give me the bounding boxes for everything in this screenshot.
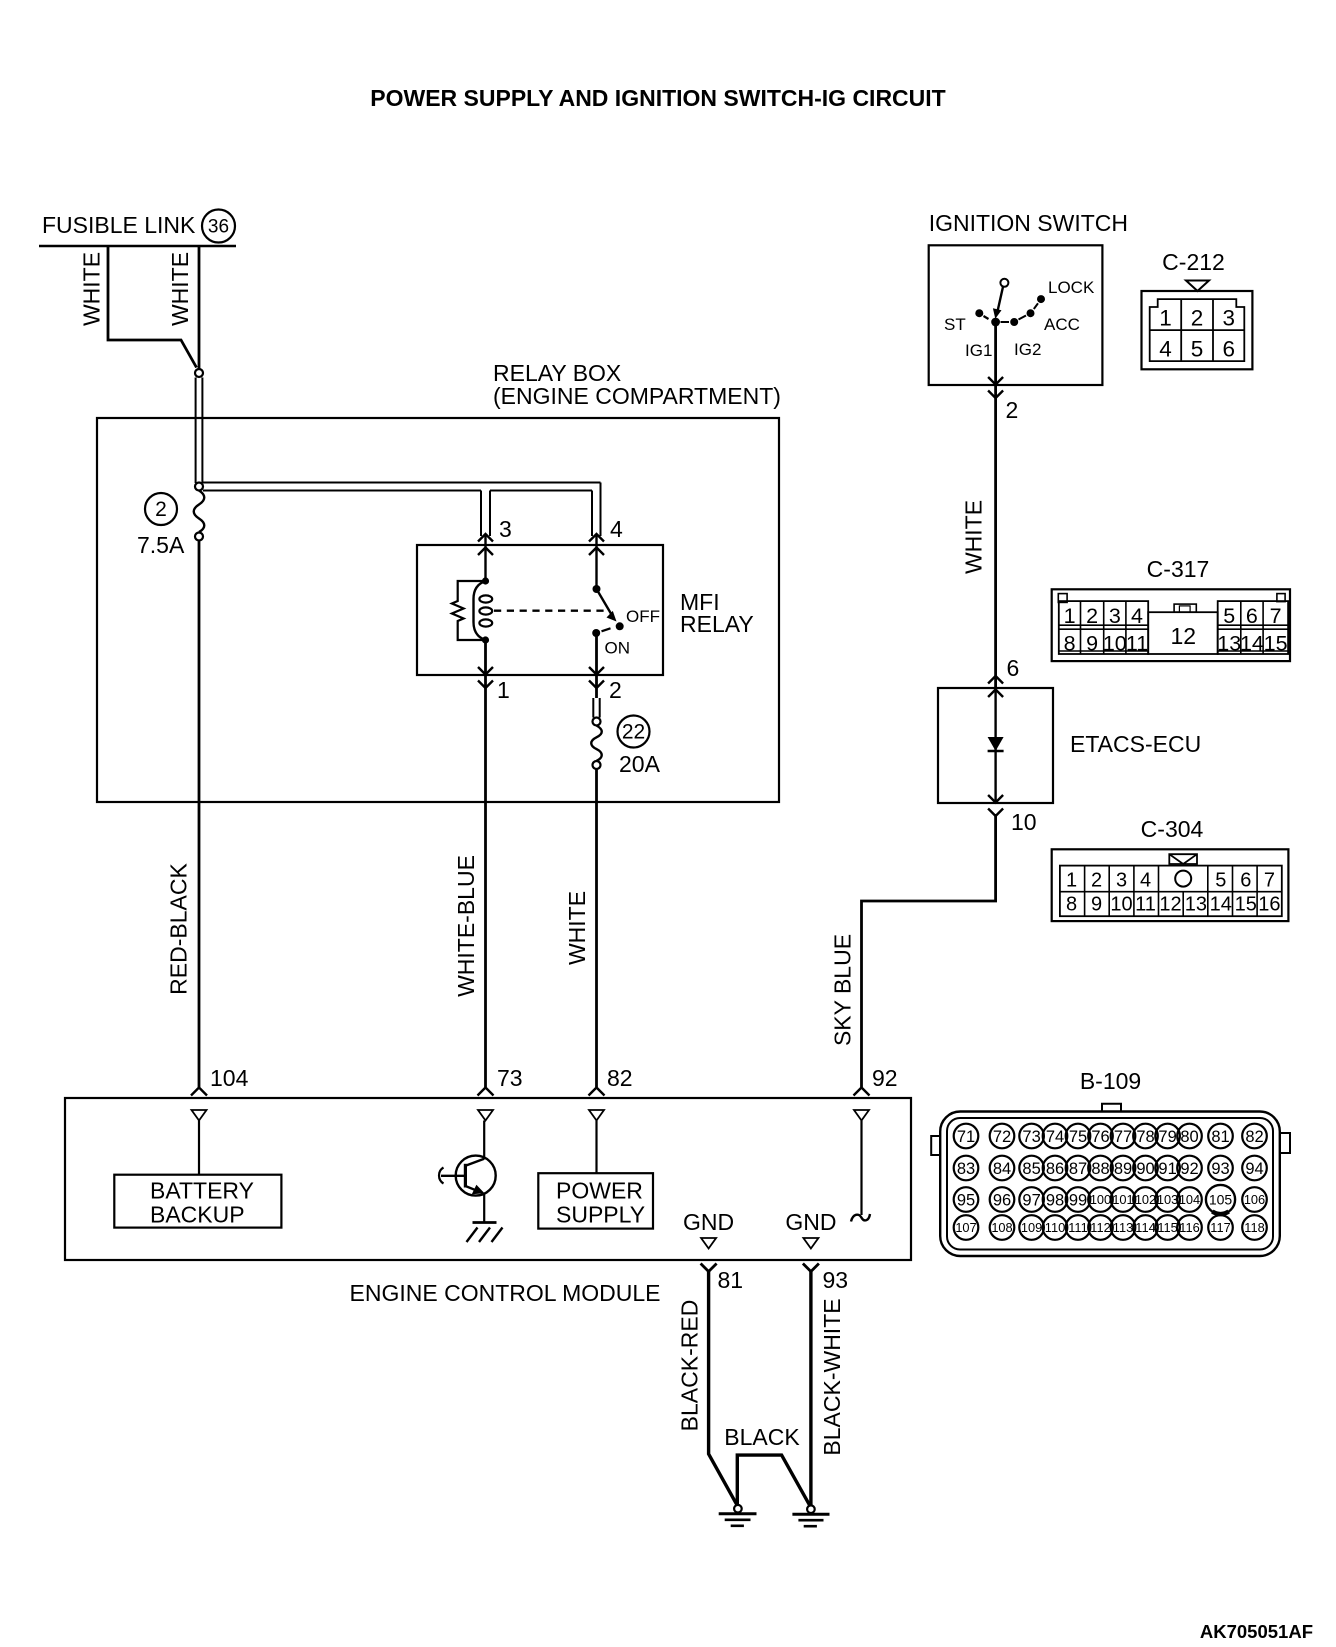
svg-text:4: 4 bbox=[1140, 870, 1151, 892]
svg-text:10: 10 bbox=[1103, 631, 1127, 655]
relay box (engine compartment) bbox=[97, 418, 779, 802]
B-109 pin 91 bbox=[1155, 1156, 1180, 1181]
svg-text:IG2: IG2 bbox=[1014, 340, 1041, 359]
ETACS pin 10 terminal arrows bbox=[988, 795, 1003, 816]
B-109 pin 80 bbox=[1177, 1124, 1202, 1149]
connector C-317 body bbox=[1052, 589, 1290, 661]
svg-text:8: 8 bbox=[1066, 893, 1077, 915]
common contact dot bbox=[991, 318, 1000, 327]
svg-text:WHITE-BLUE: WHITE-BLUE bbox=[453, 855, 479, 997]
B-109 pin 96 bbox=[990, 1187, 1015, 1212]
svg-text:C-304: C-304 bbox=[1141, 816, 1204, 842]
connector C-304 body bbox=[1052, 849, 1289, 921]
svg-text:C-317: C-317 bbox=[1147, 556, 1210, 582]
svg-text:114: 114 bbox=[1135, 1220, 1155, 1235]
svg-text:9: 9 bbox=[1086, 631, 1098, 655]
wire WHITE-BLUE (relay pin 1 to ECM pin 73) bbox=[484, 640, 487, 1087]
svg-text:BATTERY: BATTERY bbox=[150, 1178, 254, 1204]
svg-text:89: 89 bbox=[1114, 1160, 1132, 1178]
ECM pin 93 terminal bbox=[803, 1264, 819, 1272]
svg-text:10: 10 bbox=[1011, 809, 1037, 835]
B-109 pin 93 bbox=[1208, 1156, 1233, 1181]
transistor Q lead bbox=[483, 1121, 485, 1160]
relay resistor bbox=[452, 581, 486, 640]
svg-text:81: 81 bbox=[718, 1267, 744, 1293]
svg-text:4: 4 bbox=[610, 516, 623, 542]
B-109 pin 85 bbox=[1019, 1156, 1044, 1181]
svg-text:90: 90 bbox=[1136, 1160, 1154, 1178]
svg-text:36: 36 bbox=[208, 217, 229, 238]
svg-text:16: 16 bbox=[1258, 893, 1280, 915]
relay coil bbox=[474, 581, 486, 640]
svg-text:15: 15 bbox=[1235, 893, 1257, 915]
battery backup box bbox=[114, 1175, 281, 1228]
svg-text:72: 72 bbox=[993, 1128, 1011, 1146]
B-109 pin 111 bbox=[1066, 1215, 1091, 1240]
svg-text:5: 5 bbox=[1191, 337, 1204, 362]
svg-text:GND: GND bbox=[785, 1209, 836, 1235]
svg-text:91: 91 bbox=[1158, 1160, 1176, 1178]
svg-text:105: 105 bbox=[1209, 1192, 1233, 1208]
B-109 pin 105 bbox=[1206, 1185, 1235, 1214]
svg-text:1: 1 bbox=[1064, 604, 1076, 628]
svg-text:86: 86 bbox=[1046, 1160, 1064, 1178]
B-109 pin 107 bbox=[954, 1215, 979, 1240]
battery backup lead bbox=[198, 1121, 200, 1175]
connector B-109 body bbox=[1102, 1104, 1121, 1112]
svg-text:(ENGINE COMPARTMENT): (ENGINE COMPARTMENT) bbox=[493, 383, 781, 409]
svg-text:75: 75 bbox=[1069, 1128, 1087, 1146]
svg-text:77: 77 bbox=[1114, 1128, 1132, 1146]
B-109 pin 76 bbox=[1088, 1124, 1113, 1149]
B-109 pin 99 bbox=[1066, 1187, 1091, 1212]
svg-text:BLACK-WHITE: BLACK-WHITE bbox=[819, 1298, 845, 1455]
ground left bbox=[734, 1505, 742, 1513]
key pivot circle bbox=[1000, 279, 1008, 287]
ACC contact dot bbox=[1027, 309, 1035, 317]
svg-text:6: 6 bbox=[1246, 604, 1258, 628]
svg-text:12: 12 bbox=[1159, 893, 1181, 915]
B-109 pin 78 bbox=[1133, 1124, 1158, 1149]
svg-text:92: 92 bbox=[872, 1065, 898, 1091]
B-109 pin 86 bbox=[1043, 1156, 1068, 1181]
pin 92 stub with hook bbox=[860, 1121, 862, 1216]
B-109 pin 110 bbox=[1043, 1215, 1068, 1240]
B-109 pin 104 bbox=[1177, 1187, 1202, 1212]
svg-text:7: 7 bbox=[1270, 604, 1282, 628]
B-109 pin 103 bbox=[1155, 1187, 1180, 1212]
svg-text:103: 103 bbox=[1157, 1192, 1178, 1207]
B-109 pin 116 bbox=[1177, 1215, 1202, 1240]
relay switch wire from pin 4 bbox=[595, 534, 597, 589]
ignition pin 2 terminal arrows bbox=[988, 377, 1003, 398]
B-109 pin 102 bbox=[1133, 1187, 1158, 1212]
B-109 pin 109 bbox=[1019, 1215, 1044, 1240]
svg-text:93: 93 bbox=[1211, 1160, 1229, 1178]
C-304 cell block bbox=[1060, 866, 1282, 917]
svg-text:92: 92 bbox=[1180, 1160, 1198, 1178]
B-109 pin 95 bbox=[954, 1187, 979, 1212]
svg-text:IG1: IG1 bbox=[965, 341, 992, 360]
svg-text:111: 111 bbox=[1068, 1220, 1087, 1235]
svg-text:14: 14 bbox=[1210, 893, 1232, 915]
svg-text:74: 74 bbox=[1046, 1128, 1064, 1146]
svg-text:3: 3 bbox=[1222, 306, 1235, 331]
svg-text:97: 97 bbox=[1022, 1191, 1040, 1209]
svg-text:76: 76 bbox=[1091, 1128, 1109, 1146]
svg-text:RED-BLACK: RED-BLACK bbox=[166, 863, 192, 995]
ignition pin 2 wire bbox=[994, 326, 997, 396]
svg-text:2: 2 bbox=[1086, 604, 1098, 628]
B-109 pin 81 bbox=[1208, 1124, 1233, 1149]
svg-text:2: 2 bbox=[1191, 306, 1204, 331]
svg-text:5: 5 bbox=[1223, 604, 1235, 628]
svg-text:84: 84 bbox=[993, 1160, 1011, 1178]
B-109 pin 77 bbox=[1111, 1124, 1136, 1149]
fuse 2 circled label bbox=[145, 493, 177, 525]
transistor emitter to ground bbox=[483, 1193, 485, 1222]
wire right tap (WHITE) bbox=[198, 247, 201, 369]
ECM pin 82 terminal bbox=[589, 1088, 605, 1096]
svg-text:104: 104 bbox=[210, 1065, 249, 1091]
svg-text:2: 2 bbox=[1006, 397, 1019, 423]
fuse 2 element (7.5A) bbox=[194, 491, 205, 533]
B-109 pin 117 bbox=[1208, 1215, 1233, 1240]
B-109 pin 115 bbox=[1155, 1215, 1180, 1240]
svg-text:ACC: ACC bbox=[1044, 315, 1080, 334]
svg-text:4: 4 bbox=[1159, 337, 1172, 362]
ECM pin 73 terminal bbox=[478, 1088, 494, 1096]
svg-text:RELAY: RELAY bbox=[680, 611, 754, 637]
B-109 pin 108 bbox=[990, 1215, 1015, 1240]
svg-text:11: 11 bbox=[1126, 631, 1148, 655]
svg-text:1: 1 bbox=[497, 677, 510, 703]
svg-text:116: 116 bbox=[1179, 1220, 1199, 1235]
svg-text:82: 82 bbox=[607, 1065, 633, 1091]
ETACS-ECU box bbox=[938, 688, 1053, 803]
svg-text:ENGINE CONTROL MODULE: ENGINE CONTROL MODULE bbox=[350, 1280, 661, 1306]
svg-text:113: 113 bbox=[1113, 1220, 1133, 1235]
fusible link 22 cartridge bbox=[592, 698, 594, 718]
B-109 pin 87 bbox=[1066, 1156, 1091, 1181]
ECM pin 81 terminal bbox=[701, 1264, 717, 1272]
B-109 pin 89 bbox=[1111, 1156, 1136, 1181]
svg-text:1: 1 bbox=[1066, 870, 1077, 892]
svg-text:108: 108 bbox=[991, 1220, 1012, 1235]
ON contact dot bbox=[592, 629, 600, 637]
B-109 pin 73 bbox=[1019, 1124, 1044, 1149]
wire WHITE (ignition to ETACS pin 6) bbox=[994, 396, 997, 687]
C-317 center cell 12 bbox=[1148, 612, 1218, 654]
connector C-212 body bbox=[1142, 291, 1253, 369]
ground right bbox=[807, 1505, 815, 1513]
svg-text:ST: ST bbox=[944, 315, 966, 334]
coil top junction dot bbox=[482, 577, 489, 584]
B-109 pin 113 bbox=[1111, 1215, 1136, 1240]
svg-text:104: 104 bbox=[1179, 1192, 1200, 1207]
B-109 pin 82 bbox=[1242, 1124, 1267, 1149]
pin 1 terminal arrows bbox=[478, 667, 493, 688]
power supply box bbox=[538, 1173, 653, 1228]
B-109 pin 98 bbox=[1043, 1187, 1068, 1212]
fusible link 36 cartridge symbol bbox=[195, 369, 203, 377]
MFI relay box bbox=[417, 545, 663, 675]
svg-text:GND: GND bbox=[683, 1209, 734, 1235]
svg-text:OFF: OFF bbox=[626, 607, 660, 626]
ETACS internal wire bbox=[994, 688, 996, 803]
svg-text:2: 2 bbox=[1091, 870, 1102, 892]
svg-text:POWER: POWER bbox=[556, 1178, 643, 1204]
pin 2 terminal arrows bbox=[589, 667, 604, 688]
svg-text:93: 93 bbox=[823, 1267, 849, 1293]
svg-text:3: 3 bbox=[1109, 604, 1121, 628]
svg-text:POWER SUPPLY AND IGNITION SWIT: POWER SUPPLY AND IGNITION SWITCH-IG CIRC… bbox=[370, 85, 945, 111]
svg-text:94: 94 bbox=[1245, 1160, 1263, 1178]
pin 3 terminal arrows bbox=[478, 534, 493, 555]
svg-text:IGNITION SWITCH: IGNITION SWITCH bbox=[929, 210, 1128, 236]
svg-text:7: 7 bbox=[1264, 870, 1275, 892]
B-109 pin 97 bbox=[1019, 1187, 1044, 1212]
svg-text:117: 117 bbox=[1210, 1220, 1230, 1235]
C-317 left cell block bbox=[1059, 601, 1148, 654]
B-109 pin 79 bbox=[1155, 1124, 1180, 1149]
svg-text:107: 107 bbox=[955, 1220, 976, 1235]
svg-text:99: 99 bbox=[1069, 1191, 1087, 1209]
wire BLACK jumper bbox=[737, 1455, 810, 1507]
B-109 pin 72 bbox=[990, 1124, 1015, 1149]
svg-text:BACKUP: BACKUP bbox=[150, 1202, 245, 1228]
key lever bbox=[997, 287, 1003, 315]
ECM pin 104 terminal bbox=[191, 1088, 207, 1096]
IG2 contact dot bbox=[1010, 318, 1018, 326]
transistor bbox=[456, 1156, 496, 1196]
svg-text:15: 15 bbox=[1264, 631, 1288, 655]
svg-text:WHITE: WHITE bbox=[167, 252, 193, 326]
svg-text:73: 73 bbox=[1022, 1128, 1040, 1146]
svg-text:13: 13 bbox=[1217, 631, 1241, 655]
diode bbox=[988, 737, 1004, 751]
B-109 pin 101 bbox=[1111, 1187, 1136, 1212]
svg-text:118: 118 bbox=[1244, 1220, 1264, 1235]
wire BLACK-WHITE (pin 93 to ground) bbox=[809, 1272, 812, 1506]
svg-text:96: 96 bbox=[993, 1191, 1011, 1209]
svg-text:1: 1 bbox=[1159, 306, 1172, 331]
svg-text:B-109: B-109 bbox=[1080, 1068, 1141, 1094]
svg-text:WHITE: WHITE bbox=[79, 252, 105, 326]
B-109 pin 83 bbox=[954, 1156, 979, 1181]
ST contact dot bbox=[975, 309, 983, 317]
svg-text:ON: ON bbox=[605, 639, 631, 658]
LOCK contact dot bbox=[1037, 295, 1045, 303]
B-109 pin 118 bbox=[1242, 1215, 1267, 1240]
B-109 pin 100 bbox=[1088, 1187, 1113, 1212]
svg-text:10: 10 bbox=[1110, 893, 1132, 915]
svg-text:112: 112 bbox=[1090, 1220, 1110, 1235]
svg-text:78: 78 bbox=[1136, 1128, 1154, 1146]
ECM pin 92 terminal bbox=[854, 1088, 870, 1096]
svg-text:88: 88 bbox=[1091, 1160, 1109, 1178]
wire RED-BLACK (fuse 2 to ECM pin 104) bbox=[198, 541, 201, 1088]
ignition switch box bbox=[929, 245, 1103, 385]
B-109 pin 75 bbox=[1066, 1124, 1091, 1149]
svg-text:4: 4 bbox=[1131, 604, 1143, 628]
B-109 pin 92 bbox=[1177, 1156, 1202, 1181]
circled 22 label bbox=[618, 716, 650, 748]
svg-text:80: 80 bbox=[1180, 1128, 1198, 1146]
pin 4 terminal arrows bbox=[589, 534, 604, 555]
svg-text:9: 9 bbox=[1091, 893, 1102, 915]
svg-text:102: 102 bbox=[1135, 1192, 1156, 1207]
ground (transistor) bbox=[473, 1221, 497, 1224]
svg-text:106: 106 bbox=[1244, 1192, 1265, 1207]
svg-text:100: 100 bbox=[1090, 1192, 1111, 1207]
svg-text:71: 71 bbox=[957, 1128, 975, 1146]
svg-text:2: 2 bbox=[609, 677, 622, 703]
svg-text:BLACK-RED: BLACK-RED bbox=[677, 1300, 703, 1432]
wire relay pin 2 down bbox=[595, 633, 598, 698]
svg-text:79: 79 bbox=[1158, 1128, 1176, 1146]
svg-text:85: 85 bbox=[1022, 1160, 1040, 1178]
C-317 right cell block bbox=[1218, 601, 1288, 654]
ECM box bbox=[65, 1098, 911, 1260]
coil bottom junction dot bbox=[482, 636, 489, 643]
svg-text:FUSIBLE LINK: FUSIBLE LINK bbox=[42, 212, 196, 238]
svg-text:109: 109 bbox=[1021, 1220, 1042, 1235]
B-109 pin 90 bbox=[1133, 1156, 1158, 1181]
svg-text:WHITE: WHITE bbox=[564, 891, 590, 965]
svg-text:5: 5 bbox=[1215, 870, 1226, 892]
svg-text:13: 13 bbox=[1185, 893, 1207, 915]
B-109 pin 94 bbox=[1242, 1156, 1267, 1181]
svg-text:8: 8 bbox=[1064, 631, 1076, 655]
wire bus to relay pins 3 and 4 bbox=[203, 482, 601, 484]
fuse 22 element (20A) bbox=[591, 726, 602, 762]
svg-text:AK705051AF: AK705051AF bbox=[1200, 1621, 1313, 1642]
svg-text:12: 12 bbox=[1171, 623, 1197, 649]
B-109 pin 114 bbox=[1133, 1215, 1158, 1240]
B-109 pin 112 bbox=[1088, 1215, 1113, 1240]
svg-text:SKY BLUE: SKY BLUE bbox=[830, 934, 856, 1046]
wire SKY BLUE (ETACS pin 10 to ECM pin 92) bbox=[862, 814, 996, 1087]
C-304 keyway circle bbox=[1175, 871, 1191, 887]
svg-text:101: 101 bbox=[1112, 1192, 1133, 1207]
B-109 pin 88 bbox=[1088, 1156, 1113, 1181]
svg-text:83: 83 bbox=[957, 1160, 975, 1178]
B-109 pin 71 bbox=[954, 1124, 979, 1149]
ON tick bbox=[602, 628, 611, 631]
fusible link bus bar bbox=[39, 245, 236, 247]
svg-text:3: 3 bbox=[1116, 870, 1127, 892]
svg-text:2: 2 bbox=[155, 498, 167, 521]
svg-text:98: 98 bbox=[1046, 1191, 1064, 1209]
svg-text:73: 73 bbox=[497, 1065, 523, 1091]
svg-text:6: 6 bbox=[1240, 870, 1251, 892]
svg-text:20A: 20A bbox=[619, 751, 661, 777]
relay coil branch wire from pin 3 bbox=[484, 534, 486, 581]
wire WHITE (fuse 22 to ECM pin 82) bbox=[595, 769, 598, 1087]
svg-text:7.5A: 7.5A bbox=[137, 532, 185, 558]
switch blade with arrow bbox=[597, 589, 612, 615]
svg-text:6: 6 bbox=[1222, 337, 1235, 362]
power supply lead bbox=[595, 1121, 597, 1174]
svg-text:14: 14 bbox=[1240, 631, 1264, 655]
svg-text:82: 82 bbox=[1245, 1128, 1263, 1146]
svg-text:ETACS-ECU: ETACS-ECU bbox=[1070, 731, 1201, 757]
svg-text:87: 87 bbox=[1069, 1160, 1087, 1178]
connector C-212 pointer bbox=[1186, 281, 1209, 292]
svg-text:3: 3 bbox=[499, 516, 512, 542]
svg-text:115: 115 bbox=[1157, 1220, 1177, 1235]
svg-text:81: 81 bbox=[1211, 1128, 1229, 1146]
wire BLACK-RED (pin 81 to ground) bbox=[709, 1272, 737, 1505]
svg-text:BLACK: BLACK bbox=[724, 1424, 800, 1450]
wire left tap (WHITE) bbox=[108, 247, 197, 368]
svg-text:110: 110 bbox=[1045, 1220, 1065, 1235]
svg-text:SUPPLY: SUPPLY bbox=[556, 1202, 645, 1228]
svg-text:6: 6 bbox=[1007, 655, 1020, 681]
svg-text:WHITE: WHITE bbox=[961, 500, 987, 574]
B-109 pin 84 bbox=[990, 1156, 1015, 1181]
switch common contact dot bbox=[593, 585, 601, 593]
ETACS pin 6 terminal arrows bbox=[988, 676, 1003, 697]
svg-text:11: 11 bbox=[1135, 893, 1156, 915]
B-109 pin 106 bbox=[1242, 1187, 1267, 1212]
svg-text:LOCK: LOCK bbox=[1048, 278, 1095, 297]
OFF contact dot bbox=[616, 622, 624, 630]
svg-text:22: 22 bbox=[622, 721, 645, 744]
svg-text:95: 95 bbox=[957, 1191, 975, 1209]
B-109 pin 74 bbox=[1043, 1124, 1068, 1149]
svg-text:C-212: C-212 bbox=[1162, 249, 1225, 275]
dashed actuation line bbox=[494, 610, 607, 612]
